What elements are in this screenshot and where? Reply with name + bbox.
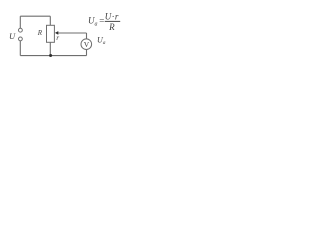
wire top horizontal — [20, 15, 50, 17]
wire voltmeter bottom lead — [86, 50, 88, 56]
svg-text:r: r — [56, 33, 59, 42]
wire right vertical to resistor top — [49, 16, 51, 25]
svg-text:R: R — [37, 29, 43, 37]
junction dot — [49, 54, 52, 57]
terminal upper — [19, 28, 23, 32]
wire resistor bottom lead — [49, 42, 51, 55]
svg-text:V: V — [84, 40, 90, 49]
wire bottom horizontal — [20, 55, 86, 57]
terminal lower — [19, 37, 23, 41]
wire right vertical to voltmeter top — [86, 33, 88, 39]
wiper arrowhead — [55, 31, 58, 35]
wire wiper to voltmeter — [58, 32, 87, 34]
svg-text:R: R — [108, 22, 115, 32]
wire left vertical upper — [19, 16, 21, 28]
formula Ua = U*r/R — [88, 11, 120, 32]
svg-text:U·r: U·r — [105, 11, 119, 21]
voltmeter U1 circle — [81, 39, 92, 50]
svg-text:U: U — [9, 31, 16, 41]
resistor R box — [47, 25, 55, 42]
wire left vertical lower — [19, 41, 21, 56]
